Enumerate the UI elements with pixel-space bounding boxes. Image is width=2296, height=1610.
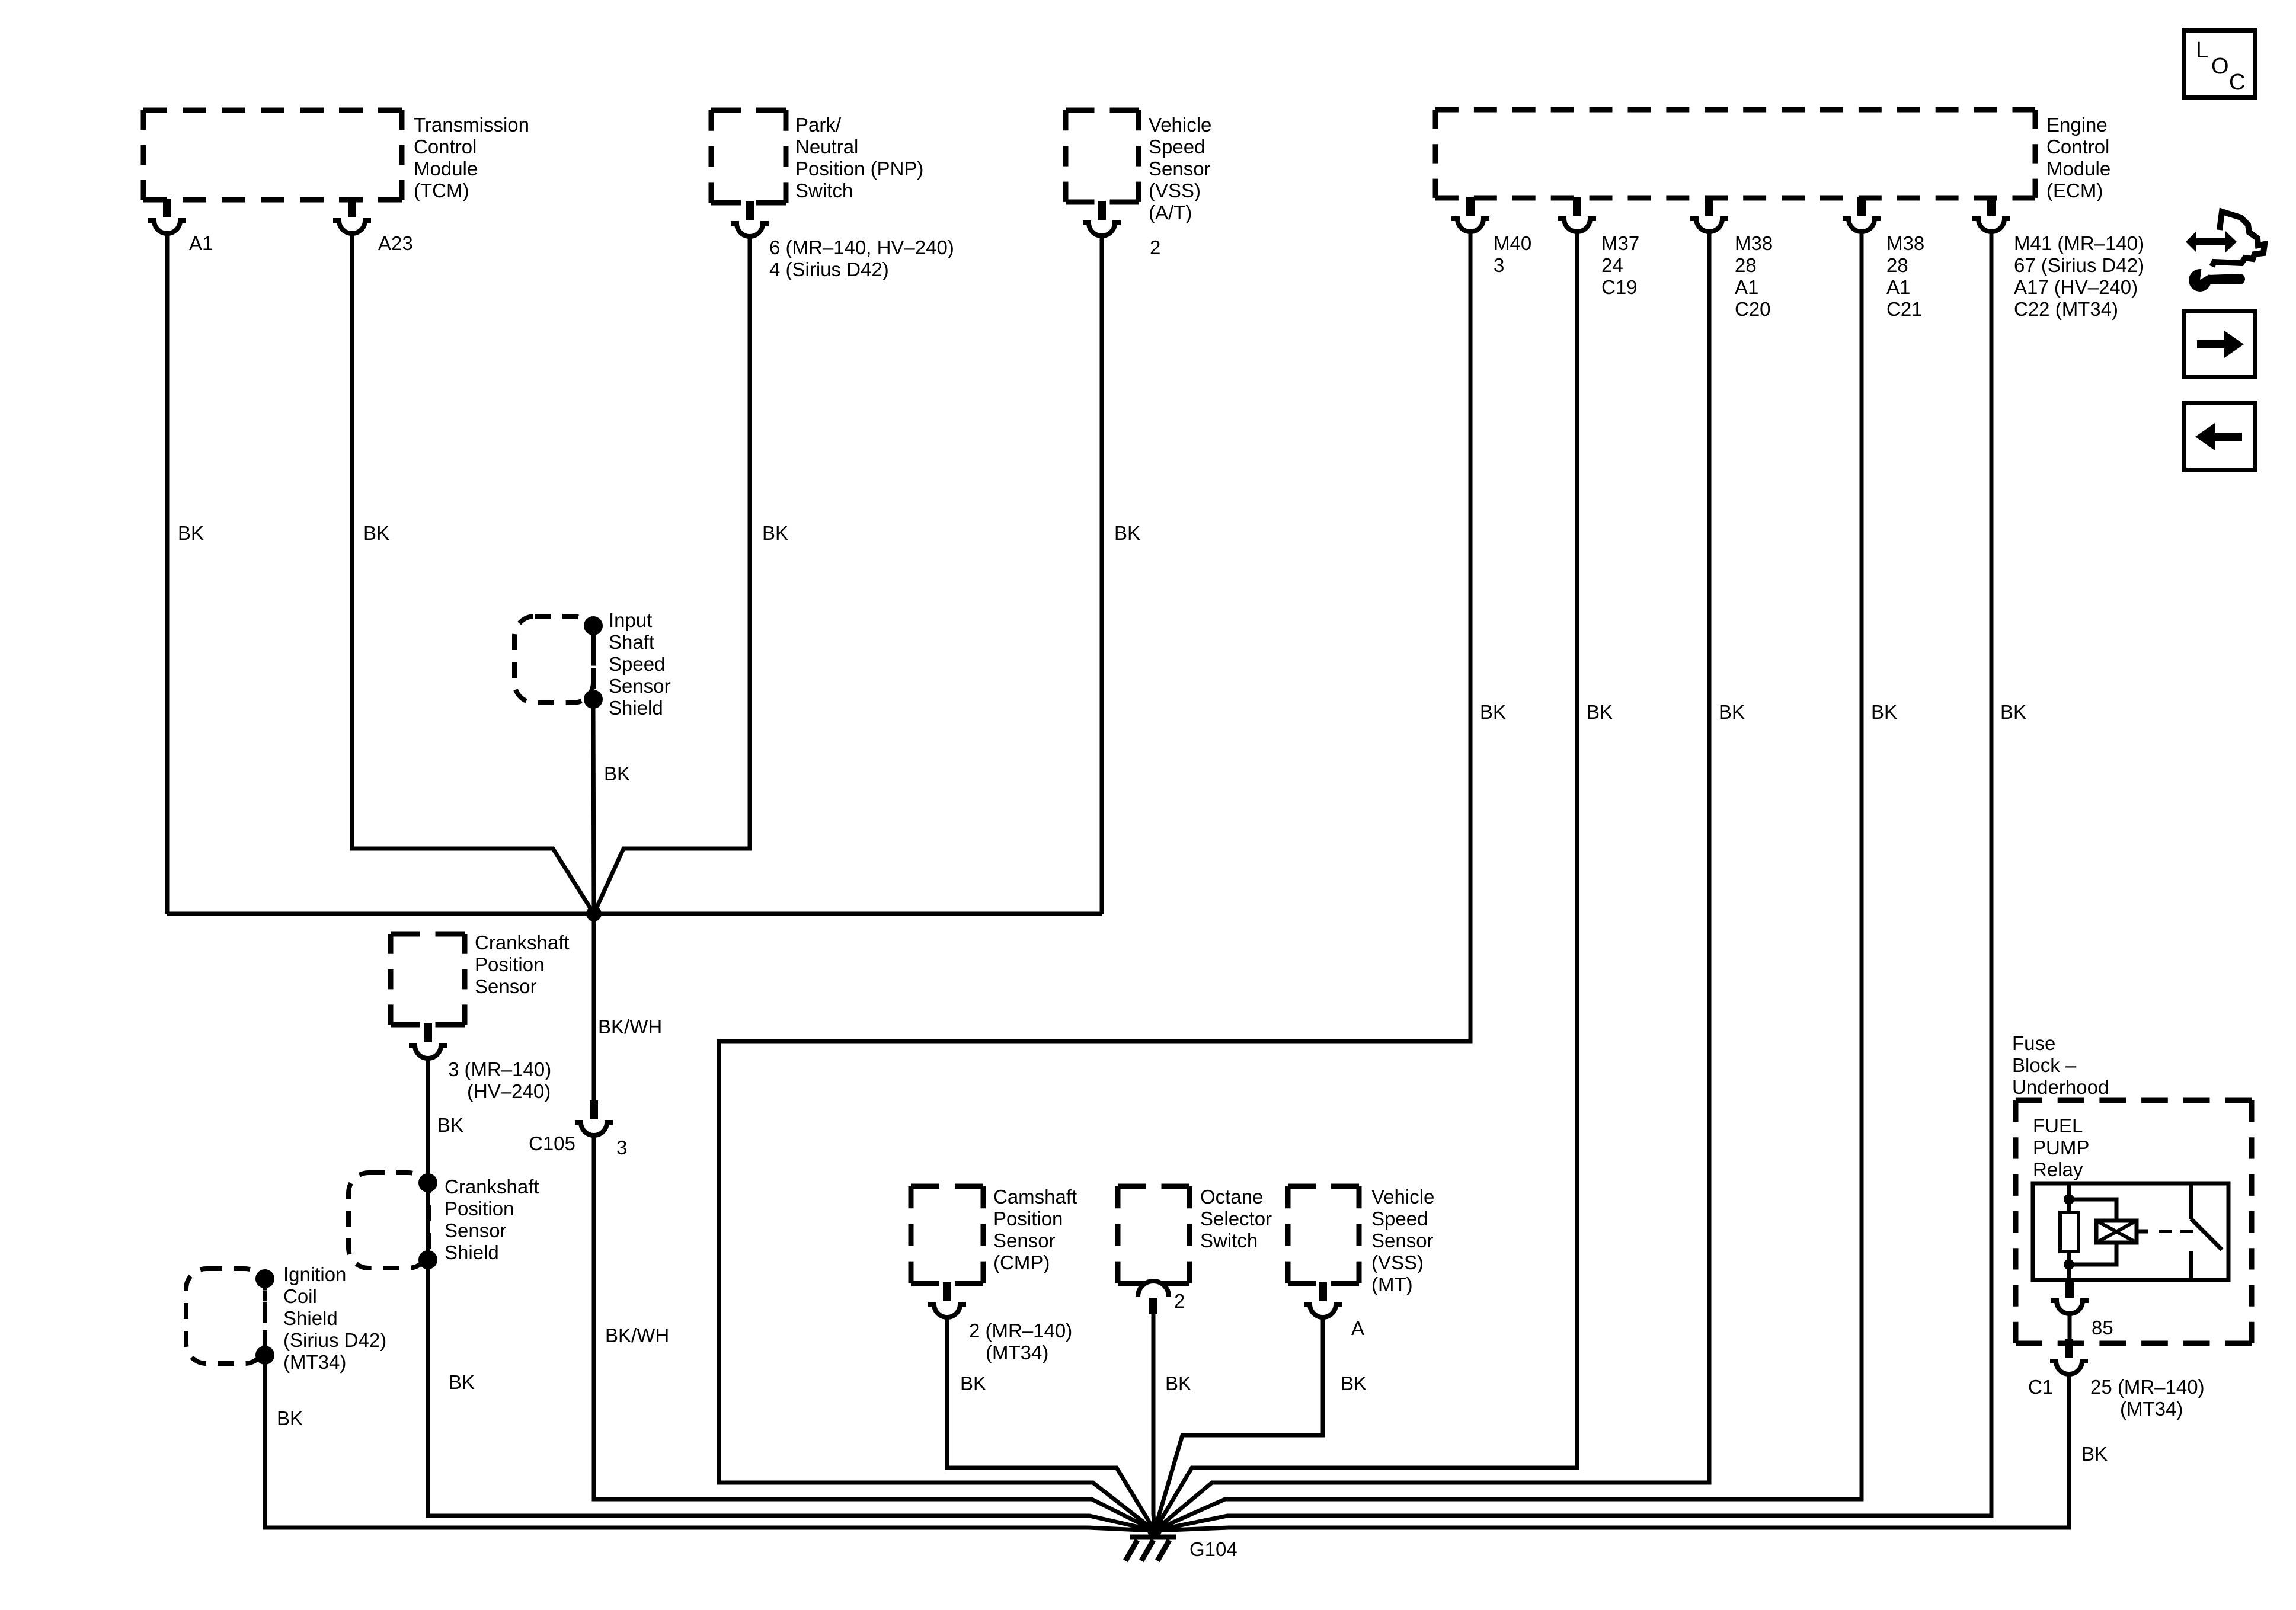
label FUEL PUMP Relay xyxy=(2033,1115,2089,1180)
svg-text:(TCM): (TCM) xyxy=(414,180,469,201)
ground G104 symbol xyxy=(1125,1523,1176,1561)
wire label BK (M38 second) xyxy=(1871,701,1897,723)
connector C105 inline pin 3 xyxy=(575,1100,613,1135)
svg-text:Ignition: Ignition xyxy=(283,1263,346,1285)
wire A1 BK from TCM A1 down xyxy=(165,233,170,914)
svg-text:6 (MR–140, HV–240): 6 (MR–140, HV–240) xyxy=(769,236,954,258)
svg-text:FUEL: FUEL xyxy=(2033,1115,2083,1137)
pin label 2 (MR-140) (MT34) xyxy=(969,1320,1072,1363)
svg-text:BK: BK xyxy=(277,1407,303,1429)
shield Ignition Coil Shield xyxy=(186,1269,274,1365)
svg-text:G104: G104 xyxy=(1189,1538,1237,1560)
label Crankshaft Position Sensor Shield xyxy=(445,1176,539,1263)
wire BK from ignition coil shield to ground G104 xyxy=(265,1359,1155,1531)
pin label A xyxy=(1351,1317,1364,1339)
svg-text:Speed: Speed xyxy=(609,653,665,675)
pin 2 connector of Octane Selector Switch (flipped) xyxy=(1138,1281,1169,1314)
svg-text:Shaft: Shaft xyxy=(609,631,654,653)
pin label 3 (MR-140) (HV-240) xyxy=(448,1058,551,1102)
shield Input Shaft Speed Sensor Shield xyxy=(514,616,603,709)
svg-text:Control: Control xyxy=(2046,136,2109,158)
pin 2 connector of VSS (A/T) xyxy=(1083,201,1121,236)
label Input Shaft Speed Sensor Shield xyxy=(609,609,671,719)
svg-text:(A/T): (A/T) xyxy=(1149,201,1192,223)
svg-text:Shield: Shield xyxy=(609,697,663,719)
svg-text:(MT34): (MT34) xyxy=(986,1342,1048,1363)
svg-text:Transmission: Transmission xyxy=(414,114,529,136)
sensor VSS (A/T) box xyxy=(1066,110,1139,202)
svg-text:(ECM): (ECM) xyxy=(2046,180,2103,201)
wire label BK/WH (below C105) xyxy=(605,1324,669,1346)
wire BK from octane switch straight to ground G104 xyxy=(1153,1314,1155,1531)
wire BK from crankshaft sensor through shield to ground G104 xyxy=(428,1058,1155,1531)
junction splice of ground wires xyxy=(586,906,602,921)
svg-text:25 (MR–140): 25 (MR–140) xyxy=(2090,1376,2205,1398)
svg-text:A: A xyxy=(1351,1317,1364,1339)
sensor Crankshaft Position Sensor box xyxy=(391,934,465,1025)
pin 6/4 connector of PNP switch xyxy=(731,201,769,236)
svg-text:C: C xyxy=(2229,70,2245,95)
wire label BK (M41) xyxy=(2000,701,2026,723)
svg-text:BK/WH: BK/WH xyxy=(598,1016,662,1038)
pin label M38 / 28 / A1 / C20 xyxy=(1735,232,1773,320)
svg-text:4 (Sirius D42): 4 (Sirius D42) xyxy=(769,258,889,280)
sensor VSS (MT) box xyxy=(1288,1186,1359,1283)
wire M38 BK (second) from ECM to ground G104 xyxy=(1155,232,1862,1531)
label Ignition Coil Shield (Sirius D42) (MT34) xyxy=(283,1263,386,1373)
svg-text:Speed: Speed xyxy=(1149,136,1205,158)
svg-text:2: 2 xyxy=(1174,1290,1185,1312)
label Vehicle Speed Sensor (VSS) (A/T) xyxy=(1149,114,1211,223)
icon forward arrow box xyxy=(2184,311,2255,377)
node junction bottom of relay resistor xyxy=(2064,1259,2074,1270)
pin label A1 xyxy=(189,232,213,254)
svg-text:BK: BK xyxy=(604,763,630,785)
svg-text:Block –: Block – xyxy=(2012,1054,2077,1076)
mechanical link dashed between coil and switch xyxy=(2159,1230,2194,1233)
svg-text:Crankshaft: Crankshaft xyxy=(445,1176,539,1198)
svg-text:C20: C20 xyxy=(1735,298,1771,320)
svg-text:Crankshaft: Crankshaft xyxy=(475,932,570,953)
pin M38 connector of ECM (first) xyxy=(1690,197,1728,232)
svg-text:Speed: Speed xyxy=(1371,1208,1428,1230)
pin 2 connector of CMP xyxy=(928,1282,966,1317)
wire PNP BK down with bend to junction xyxy=(594,236,750,914)
pin A23 connector of TCM xyxy=(333,199,371,233)
svg-text:Shield: Shield xyxy=(445,1241,499,1263)
pin label 2 at octane switch xyxy=(1174,1290,1185,1312)
svg-text:Octane: Octane xyxy=(1200,1186,1263,1208)
svg-text:Sensor: Sensor xyxy=(475,975,537,997)
svg-text:BK: BK xyxy=(178,522,204,544)
svg-text:Coil: Coil xyxy=(283,1285,317,1307)
wire BK from shield bottom dot to junction xyxy=(593,703,594,914)
relay K FUEL PUMP Relay outline box xyxy=(2033,1183,2228,1280)
svg-text:Fuse: Fuse xyxy=(2012,1032,2055,1054)
svg-text:C19: C19 xyxy=(1601,276,1638,298)
svg-text:BK: BK xyxy=(1114,522,1140,544)
module ECM box xyxy=(1435,110,2035,198)
svg-text:PUMP: PUMP xyxy=(2033,1137,2089,1158)
wire label BK (A23) xyxy=(363,522,389,544)
svg-text:2: 2 xyxy=(1150,236,1160,258)
svg-text:C105: C105 xyxy=(529,1132,575,1154)
wire BK from fuse block C1 to ground G104 xyxy=(1155,1374,2069,1531)
svg-text:(CMP): (CMP) xyxy=(993,1251,1050,1273)
wire from relay pin 85 to fuse block connector C1 xyxy=(2068,1314,2072,1342)
wire label BK (M37) xyxy=(1587,701,1613,723)
svg-text:C22 (MT34): C22 (MT34) xyxy=(2014,298,2118,320)
switch contact of FUEL PUMP relay xyxy=(2191,1183,2222,1280)
wire M38 BK (first) from ECM to ground G104 xyxy=(1155,232,1709,1531)
label Camshaft Position Sensor (CMP) xyxy=(993,1186,1077,1273)
svg-text:A1: A1 xyxy=(1886,276,1910,298)
label Park/Neutral Position (PNP) Switch xyxy=(795,114,923,201)
svg-text:A1: A1 xyxy=(1735,276,1758,298)
svg-text:L: L xyxy=(2196,38,2208,63)
svg-text:3: 3 xyxy=(616,1137,627,1158)
svg-text:O: O xyxy=(2211,54,2229,79)
pin M38 connector of ECM (second) xyxy=(1843,197,1881,232)
icon repair/wrench with double arrow xyxy=(2186,212,2265,292)
pin label 3 at C105 xyxy=(616,1137,627,1158)
wire label BK (M38 first) xyxy=(1719,701,1745,723)
svg-text:Selector: Selector xyxy=(1200,1208,1272,1230)
coil of FUEL PUMP relay (box with X) xyxy=(2096,1221,2137,1243)
connector C1 pin 25 of fuse block xyxy=(2050,1339,2088,1374)
svg-text:Position: Position xyxy=(993,1208,1063,1230)
pin 3 connector of Crankshaft Position Sensor xyxy=(409,1023,447,1058)
label Vehicle Speed Sensor (VSS) (MT) xyxy=(1371,1186,1434,1295)
svg-text:(Sirius D42): (Sirius D42) xyxy=(283,1329,386,1351)
svg-text:(HV–240): (HV–240) xyxy=(467,1080,551,1102)
svg-text:Position: Position xyxy=(445,1198,514,1219)
icon back arrow box xyxy=(2184,403,2255,470)
block Fuse Block - Underhood box xyxy=(2016,1100,2252,1343)
wire label BK (crankshaft sensor) xyxy=(437,1114,463,1136)
svg-text:BK: BK xyxy=(363,522,389,544)
svg-text:BK: BK xyxy=(2000,701,2026,723)
svg-text:Position (PNP): Position (PNP) xyxy=(795,158,923,180)
svg-text:Sensor: Sensor xyxy=(993,1230,1056,1251)
label Engine Control Module (ECM) xyxy=(2046,114,2110,201)
wire M41 BK from ECM to ground G104 xyxy=(1155,232,1991,1531)
pin label 25 (MR-140) (MT34) xyxy=(2090,1376,2205,1420)
svg-text:BK: BK xyxy=(1719,701,1745,723)
svg-text:M38: M38 xyxy=(1886,232,1924,254)
svg-text:BK/WH: BK/WH xyxy=(605,1324,669,1346)
svg-text:M38: M38 xyxy=(1735,232,1773,254)
pin M37 connector of ECM xyxy=(1558,197,1596,232)
svg-text:M37: M37 xyxy=(1601,232,1639,254)
wire label BK (octane) xyxy=(1165,1372,1191,1394)
svg-text:BK: BK xyxy=(1871,701,1897,723)
svg-text:BK: BK xyxy=(1341,1372,1367,1394)
wire coil right stub xyxy=(2137,1230,2148,1234)
pin 85 connector of FUEL PUMP relay xyxy=(2051,1279,2089,1314)
pin label M38 / 28 / A1 / C21 xyxy=(1886,232,1924,320)
wire label BK (fuel pump relay) xyxy=(2081,1443,2108,1465)
svg-text:BK: BK xyxy=(1587,701,1613,723)
svg-text:A17 (HV–240): A17 (HV–240) xyxy=(2014,276,2138,298)
svg-text:Position: Position xyxy=(475,953,544,975)
svg-text:BK: BK xyxy=(449,1371,475,1393)
svg-text:Switch: Switch xyxy=(1200,1230,1258,1251)
wire label BK (crankshaft shield) xyxy=(449,1371,475,1393)
wire BK/WH from junction down to C105 xyxy=(592,914,596,1102)
label Octane Selector Switch xyxy=(1200,1186,1272,1251)
svg-text:28: 28 xyxy=(1886,254,1908,276)
svg-text:Sensor: Sensor xyxy=(1371,1230,1434,1251)
svg-text:C1: C1 xyxy=(2028,1376,2053,1398)
svg-text:Park/: Park/ xyxy=(795,114,842,136)
wire M37 BK from ECM to ground G104 xyxy=(1155,232,1577,1531)
svg-text:A23: A23 xyxy=(378,232,413,254)
svg-text:2 (MR–140): 2 (MR–140) xyxy=(969,1320,1072,1342)
svg-text:Sensor: Sensor xyxy=(1149,158,1211,180)
svg-text:A1: A1 xyxy=(189,232,213,254)
wire label BK (input shaft shield) xyxy=(604,763,630,785)
wire label BK (A1) xyxy=(178,522,204,544)
switch Octane Selector box xyxy=(1118,1186,1189,1283)
resistor of FUEL PUMP relay xyxy=(2060,1212,2078,1251)
pin label M37 / 24 / C19 xyxy=(1601,232,1639,298)
connector label C1 xyxy=(2028,1376,2053,1398)
svg-text:M40: M40 xyxy=(1494,232,1531,254)
wire label BK (ignition coil shield) xyxy=(277,1407,303,1429)
pin M40 connector of ECM xyxy=(1451,197,1489,232)
svg-text:Underhood: Underhood xyxy=(2012,1076,2109,1098)
wire label BK (VSS MT) xyxy=(1341,1372,1367,1394)
wire M40 BK from ECM via left riser to ground G104 xyxy=(719,232,1470,1531)
wire relay internal left terminal xyxy=(2067,1183,2071,1280)
wire BK from VSS (MT) to ground G104 xyxy=(1155,1317,1323,1531)
wire horizontal bus from A1 to VSS (A/T) at junction level xyxy=(167,912,1102,916)
switch PNP box xyxy=(711,110,786,203)
wire label BK (CMP) xyxy=(960,1372,986,1394)
svg-text:(MT34): (MT34) xyxy=(283,1351,346,1373)
wire A23 BK from TCM A23 down with bend to junction xyxy=(352,233,594,914)
svg-text:(MT): (MT) xyxy=(1371,1273,1413,1295)
svg-text:(VSS): (VSS) xyxy=(1371,1251,1424,1273)
module TCM box xyxy=(143,110,402,200)
svg-text:BK: BK xyxy=(762,522,788,544)
svg-text:Camshaft: Camshaft xyxy=(993,1186,1077,1208)
label Transmission Control Module (TCM) xyxy=(414,114,529,201)
svg-text:BK: BK xyxy=(437,1114,463,1136)
svg-text:67 (Sirius D42): 67 (Sirius D42) xyxy=(2014,254,2144,276)
svg-text:Switch: Switch xyxy=(795,180,853,201)
svg-text:Engine: Engine xyxy=(2046,114,2108,136)
wire VSS (A/T) BK down xyxy=(1100,236,1104,914)
svg-text:M41 (MR–140): M41 (MR–140) xyxy=(2014,232,2144,254)
shield Crankshaft Position Sensor Shield xyxy=(348,1173,437,1269)
wire label BK (PNP) xyxy=(762,522,788,544)
pin label M40 / 3 xyxy=(1494,232,1531,276)
pin M41 connector of ECM xyxy=(1972,197,2010,232)
wire label BK/WH (above C105) xyxy=(598,1016,662,1038)
wire BK from CMP to ground G104 xyxy=(947,1317,1155,1531)
sensor CMP box xyxy=(911,1186,983,1283)
wire relay coil loop xyxy=(2069,1199,2116,1265)
icon LOC reference box xyxy=(2184,30,2255,97)
svg-text:BK: BK xyxy=(1165,1372,1191,1394)
pin label 2 of VSS (A/T) xyxy=(1150,236,1160,258)
label Crankshaft Position Sensor xyxy=(475,932,570,997)
connector label C105 xyxy=(529,1132,575,1154)
svg-text:3 (MR–140): 3 (MR–140) xyxy=(448,1058,551,1080)
node junction top of relay resistor xyxy=(2064,1194,2074,1205)
pin A connector of VSS (MT) xyxy=(1304,1282,1342,1317)
pin label M41 / 67 / A17 / C22 xyxy=(2014,232,2144,320)
svg-text:Vehicle: Vehicle xyxy=(1149,114,1211,136)
pin label A23 xyxy=(378,232,413,254)
wire label BK (VSS A/T) xyxy=(1114,522,1140,544)
svg-text:85: 85 xyxy=(2092,1317,2113,1339)
wire BK/WH from C105 to ground G104 xyxy=(594,1135,1155,1531)
svg-text:BK: BK xyxy=(1480,701,1506,723)
svg-text:24: 24 xyxy=(1601,254,1623,276)
ground label G104 xyxy=(1189,1538,1237,1560)
label Fuse Block - Underhood xyxy=(2012,1032,2109,1098)
svg-text:Relay: Relay xyxy=(2033,1158,2083,1180)
pin label 85 xyxy=(2092,1317,2113,1339)
svg-text:(MT34): (MT34) xyxy=(2120,1398,2183,1420)
svg-text:Input: Input xyxy=(609,609,652,631)
svg-text:(VSS): (VSS) xyxy=(1149,180,1201,201)
svg-text:Neutral: Neutral xyxy=(795,136,858,158)
wire label BK (M40) xyxy=(1480,701,1506,723)
svg-text:Module: Module xyxy=(414,158,478,180)
svg-text:3: 3 xyxy=(1494,254,1504,276)
svg-text:BK: BK xyxy=(2081,1443,2108,1465)
pin label 6 (MR-140, HV-240) / 4 (Sirius D42) xyxy=(769,236,954,280)
svg-text:Module: Module xyxy=(2046,158,2110,180)
pin A1 connector of TCM xyxy=(148,199,186,233)
svg-text:28: 28 xyxy=(1735,254,1757,276)
svg-text:Sensor: Sensor xyxy=(609,675,671,697)
svg-text:Vehicle: Vehicle xyxy=(1371,1186,1434,1208)
svg-text:Control: Control xyxy=(414,136,477,158)
svg-text:C21: C21 xyxy=(1886,298,1923,320)
svg-text:Shield: Shield xyxy=(283,1307,338,1329)
svg-text:BK: BK xyxy=(960,1372,986,1394)
svg-text:Sensor: Sensor xyxy=(445,1219,507,1241)
